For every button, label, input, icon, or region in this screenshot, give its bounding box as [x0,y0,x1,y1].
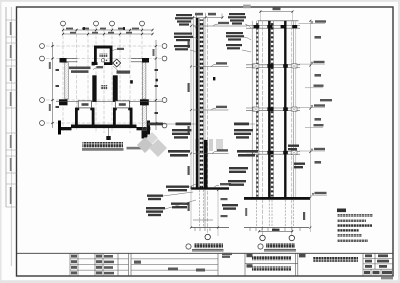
elevator core walls [94,46,113,66]
elev1 ground thick band [191,187,229,189]
left revision strip [6,7,17,266]
elev2 annotations right of strip [288,145,299,151]
left hatched wall [65,63,69,100]
room right below [113,108,133,128]
elev1 title [186,244,191,249]
elev2 level flags right [314,20,327,194]
left column block bottom [59,99,68,105]
elev2 bottom line [244,227,309,229]
elev2 below-ground left dim text [245,208,247,216]
elev2 annotations mid-left [234,123,249,126]
right hatched wall lower [142,106,146,131]
bottom-left L wall [58,127,72,130]
elev2 top edge [258,20,299,22]
bottom long wall bar [71,125,137,129]
elev1 annotations top-left [175,14,193,26]
elev2 right dim line [309,20,311,232]
elev1 level flags [211,22,231,188]
drawing title cell [299,254,306,258]
dim 240 leader [117,48,124,50]
bottom-right wall [137,127,151,130]
horizontal row lines (small cells) [70,259,393,276]
elev1 bottom dim right [217,190,219,236]
elev2 top dim [260,11,292,13]
elev1 bottom line [191,227,229,229]
section diamond [113,59,121,67]
stair shaft walls [92,75,96,101]
elev2 bottom dim [259,230,292,232]
elev2 ground thick band [244,197,310,200]
left strip rotated text marks [10,22,12,204]
stair label [101,85,108,89]
plan title [82,142,123,147]
small mark right of strip [213,77,215,80]
joint black marks middle columns [267,64,287,154]
room left below [75,108,95,128]
top dimension lines [53,30,157,130]
elev1 annotations bottom-left [166,186,189,192]
axis bubbles top [61,21,145,26]
elev2 title [258,244,263,249]
slab line across [56,101,162,103]
JGZ1 label [117,71,131,74]
elev2 axis centerlines dashed [262,21,264,235]
title block text smudges [71,253,232,275]
axis bubbles right [162,44,167,128]
KL box right [115,101,129,108]
elev1 annotations mid-left [148,123,163,126]
left dim rotated texts [49,62,51,69]
elev1 floor lines [193,26,247,220]
intermediate axis ticks plan [56,27,159,113]
company name rows [247,254,253,257]
elev1 top dim [193,17,223,19]
verticals [70,253,375,276]
elev1 axis centerline dashed [207,18,209,234]
elev2 bottom bubbles [260,235,265,240]
extension verticals above dim [197,13,223,18]
elev1 left dim line [190,18,192,227]
plan annotation text left [69,67,91,70]
below-frame tiny text [381,277,393,279]
elev1 lower thick column [204,140,208,189]
elev1 below-ground dashed [199,190,203,228]
elev2 columns [251,21,253,197]
tiny mark above frame [243,5,251,9]
elev1 column strip [192,18,194,188]
elev2 below-ground dashed [256,200,293,228]
elev2 joint boxes lower bands [253,64,297,155]
axis bubbles left [40,44,45,126]
small column at core left [92,62,95,66]
outer thin border left [5,7,7,207]
watermark [137,132,223,157]
plan grid horizontals dashed [46,46,161,123]
elev2 floor bands [246,26,300,155]
elevator label [100,54,108,57]
KL box left [78,101,91,108]
right small cells [364,254,392,274]
elev2 joint marks top band: black blobs [254,25,298,28]
elev2 annotations top-left [228,13,246,25]
elev1 bottom bubble [205,234,210,239]
small column tick on axis [130,80,133,83]
top dimension text smudges [66,28,139,34]
middle bottom stub [108,128,110,136]
dimension ticks top [51,29,157,124]
wall top-right bar [142,58,149,63]
1670 dim [97,66,104,68]
elev2 dim texts [303,36,321,220]
right hatched wall [142,63,146,100]
plan grid verticals dashed [63,26,142,134]
right column block bottom [140,99,149,105]
wall top-left bar [60,58,67,63]
